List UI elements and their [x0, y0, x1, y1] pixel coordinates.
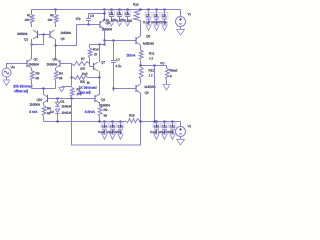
capacitor C12: [166, 122, 176, 140]
transistor Q3: [100, 20, 112, 30]
capacitor C4: [103, 10, 115, 26]
capacitor C14: [98, 122, 108, 140]
wire zobel bottom: [154, 66, 156, 122]
resistor R7: [72, 58, 90, 70]
wire Q3 collector down: [104, 29, 106, 41]
resistor R2: [70, 88, 82, 99]
resistor R12: [139, 67, 154, 84]
capacitor C10: [150, 122, 160, 140]
wire right mirror column: [55, 39, 57, 59]
transistor Q4: [47, 58, 60, 68]
note 4 mA: [29, 110, 37, 113]
ground V1: [176, 30, 185, 36]
wire Q4 collector: [55, 58, 57, 60]
wire Q11 collector: [99, 78, 101, 96]
wire mirror to Q3 base: [56, 25, 77, 46]
wire Q3 emitter to rail: [104, 10, 106, 21]
transistor Q11: [95, 94, 110, 106]
resistor R16: [126, 114, 141, 122]
wire Q3 base: [77, 24, 101, 26]
capacitor C5: [111, 10, 122, 26]
ground V2: [176, 140, 185, 146]
wire tail join: [32, 88, 56, 93]
wire V+ rail: [32, 9, 181, 11]
wire left mirror column: [31, 39, 33, 58]
resistor R9: [98, 102, 107, 122]
wire feedback to ground: [62, 86, 72, 88]
transistor Q2: [27, 58, 39, 68]
note 4.6mA: [85, 110, 95, 113]
wire output: [140, 65, 167, 67]
note Vbias: [127, 54, 136, 57]
wire bias bottom line: [44, 121, 126, 123]
transistor Q5: [50, 30, 71, 40]
source Vin: [2, 64, 27, 81]
capacitor C16: [114, 122, 124, 140]
label VO: [160, 62, 164, 64]
transistor Q1: [17, 30, 37, 41]
wire Q7 collector: [99, 45, 101, 63]
note offset adj: [13, 85, 32, 93]
capacitor C9: [159, 10, 168, 31]
resistor Rload: [165, 66, 177, 85]
capacitor C11: [158, 122, 168, 140]
wire Q1-Q5 base tie: [31, 34, 51, 46]
resistor R15: [72, 73, 101, 83]
transistor Q7: [90, 61, 105, 71]
wire V- rail: [140, 121, 181, 123]
transistor Q8: [136, 35, 154, 45]
resistor R11: [139, 45, 154, 66]
wire Q9 collector: [140, 93, 142, 122]
diode D1: [55, 99, 72, 108]
resistor R1: [25, 10, 34, 28]
node V+ junction dots: [55, 9, 166, 11]
wire C-mult stub: [113, 89, 115, 92]
wire bias line: [48, 98, 95, 100]
ground Vin: [3, 80, 11, 86]
resistor R10: [127, 3, 140, 22]
wire Q7 emitter: [99, 71, 101, 78]
resistor R4: [54, 68, 63, 89]
transistor Q10: [30, 94, 48, 106]
capacitor C6: [119, 10, 130, 26]
wire VAS node: [104, 40, 137, 45]
transistor Q9: [136, 84, 155, 94]
wire feedback column: [71, 64, 73, 87]
source V2: [176, 122, 191, 140]
resistor R14: [88, 45, 98, 64]
wire Q9 base: [113, 88, 137, 90]
capacitor C7: [143, 10, 152, 31]
capacitor C15: [106, 122, 116, 140]
wire Q2 collector: [31, 58, 33, 59]
wire Q4 base to feedback: [60, 63, 72, 65]
capacitor C3: [76, 13, 106, 25]
capacitor C8: [151, 10, 160, 31]
source V1: [176, 10, 191, 30]
resistor R3: [30, 68, 39, 89]
resistor R8: [42, 102, 51, 122]
ground Rload: [163, 85, 171, 91]
diode D2: [50, 109, 72, 122]
ground feedback: [58, 87, 65, 92]
note bias adj: [79, 81, 97, 94]
wire feedback return: [72, 99, 141, 146]
wire Q8 collector: [140, 21, 142, 37]
capacitor C7b: [111, 41, 121, 89]
wire multiplier top: [90, 44, 106, 46]
wire Q10 collector: [43, 89, 45, 96]
resistor R5: [48, 10, 58, 28]
